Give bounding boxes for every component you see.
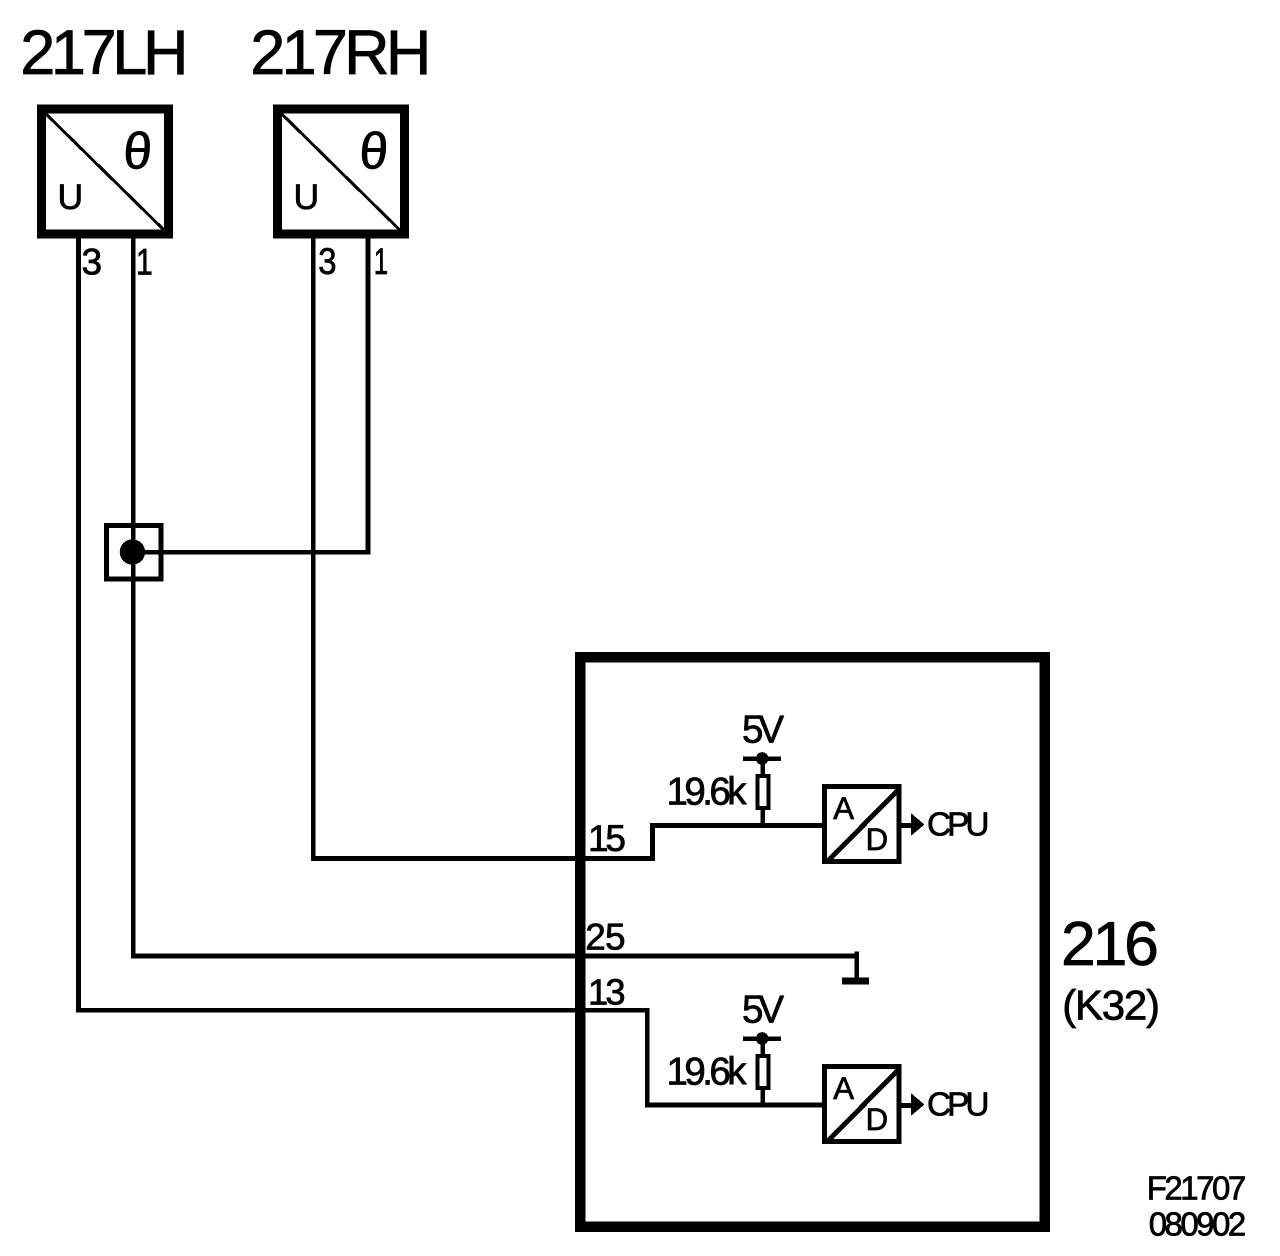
wire: A/D output stub (lower): [899, 1103, 912, 1108]
resistor 19.6k (lower): [757, 1056, 768, 1088]
svg-text:CPU: CPU: [927, 1086, 990, 1123]
A/D converter box (upper): [825, 787, 900, 862]
svg-text:217RH: 217RH: [250, 18, 431, 88]
5V supply terminal bar (lower): [743, 1036, 781, 1041]
svg-text:F21707: F21707: [1147, 1170, 1247, 1207]
svg-text:3: 3: [318, 241, 336, 282]
temperature sensor B217RH box: [277, 109, 404, 234]
svg-text:1: 1: [136, 242, 153, 283]
svg-text:(K32): (K32): [1062, 982, 1160, 1029]
svg-text:θ: θ: [357, 122, 390, 180]
wire: 217LH pin 3 down, right to pin 13, down, to lower A/D input: [79, 238, 825, 1105]
wire: 5V to resistor (lower): [760, 1039, 765, 1058]
svg-text:216: 216: [1061, 909, 1159, 979]
ECU 216 box: [580, 657, 1044, 1226]
svg-text:CPU: CPU: [927, 806, 990, 843]
svg-text:217LH: 217LH: [20, 18, 188, 88]
svg-text:5V: 5V: [742, 989, 784, 1032]
svg-text:080902: 080902: [1149, 1205, 1247, 1242]
wire: A/D output stub (upper): [899, 823, 912, 828]
A/D diagonal (upper): [828, 790, 899, 862]
svg-text:5V: 5V: [742, 709, 784, 752]
svg-text:19.6k: 19.6k: [667, 1050, 748, 1093]
sensor 217RH theta symbol: [357, 122, 390, 180]
sensor 217RH diagonal: [281, 113, 401, 231]
wire: resistor to node (lower): [760, 1088, 765, 1106]
wire: 217RH pin 3 down, right to pin 15, up, to upper A/D input: [313, 238, 824, 859]
wire: 217RH pin 1 down, left to junction dot: [131, 238, 368, 552]
resistor 19.6k (upper): [757, 776, 768, 808]
svg-text:A: A: [833, 791, 854, 826]
sensor 217LH theta symbol: [121, 122, 154, 180]
A/D converter box (lower): [825, 1067, 900, 1142]
svg-text:D: D: [866, 1102, 889, 1137]
svg-text:19.6k: 19.6k: [667, 770, 748, 813]
5V supply terminal bar (upper): [743, 756, 781, 761]
svg-text:U: U: [58, 177, 84, 217]
wire: junction down, right to pin 25: [133, 552, 856, 978]
5V supply terminal dot (upper): [756, 752, 769, 765]
svg-text:13: 13: [588, 972, 626, 1013]
junction connector box: [107, 526, 161, 579]
wire: 5V to resistor (upper): [760, 759, 765, 778]
svg-text:A: A: [833, 1071, 854, 1106]
svg-text:25: 25: [585, 917, 625, 958]
svg-text:U: U: [294, 177, 320, 217]
svg-text:15: 15: [588, 818, 626, 859]
A/D diagonal (lower): [828, 1070, 899, 1142]
svg-text:3: 3: [82, 242, 103, 283]
temperature sensor B217LH box: [42, 109, 169, 234]
junction solder dot: [120, 539, 145, 564]
arrowhead to CPU (upper): [911, 813, 925, 836]
wire: 217LH pin 1 down to junction: [131, 238, 136, 552]
svg-text:θ: θ: [121, 122, 154, 180]
svg-text:1: 1: [374, 241, 388, 282]
svg-text:D: D: [866, 822, 889, 857]
arrowhead to CPU (lower): [911, 1093, 925, 1116]
5V supply terminal dot (lower): [756, 1032, 769, 1045]
wire: resistor to node (upper): [760, 808, 765, 826]
ground symbol bar (pin 25): [842, 978, 869, 985]
sensor 217LH diagonal: [45, 113, 165, 231]
ground stub (pin 25): [854, 952, 859, 979]
